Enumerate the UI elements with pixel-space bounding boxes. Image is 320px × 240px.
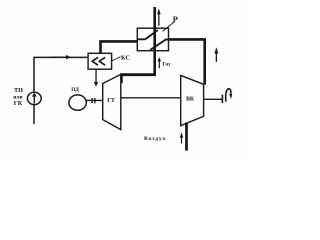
pump TN/GK circle [27, 92, 41, 104]
svg-text:КС: КС [121, 54, 130, 61]
shaft VK to load [204, 98, 223, 100]
shaft PD to GT [86, 99, 102, 101]
regenerator diagonal 1 [145, 30, 158, 39]
arrow on fuel line into KC [51, 55, 71, 60]
air flow arrow on right pipe [214, 47, 218, 62]
compressor VK trapezoid [181, 75, 204, 125]
svg-text:Воздух: Воздух [144, 136, 166, 142]
load curl arrow [226, 89, 231, 102]
arrow inside TN circle [32, 93, 37, 104]
air intake pipe below VK [185, 123, 188, 151]
coupling ticks PD-GT [91, 98, 92, 103]
air intake arrow [180, 132, 184, 143]
air pipe regenerator to KC [101, 41, 138, 53]
combustion chamber KC box [88, 53, 112, 69]
exhaust arrow at top [157, 9, 161, 26]
KC chevron 2 [99, 57, 105, 65]
svg-text:ПД: ПД [71, 87, 79, 93]
KC chevron 1 [92, 57, 98, 65]
gas duct KC arrow down to GT [94, 69, 99, 86]
wire fuel line vertical [34, 57, 88, 124]
svg-text:Газ: Газ [162, 61, 171, 67]
regenerator zigzag left stub [137, 38, 145, 40]
regenerator diagonal 2 [150, 40, 168, 50]
svg-text:ТН: ТН [14, 87, 23, 94]
exhaust pipe through regenerator up [153, 7, 156, 75]
gas arrow beside pipe [158, 57, 162, 68]
leader line to KC label [112, 57, 121, 61]
shaft GT to VK [121, 97, 181, 99]
air pipe regenerator to compressor [169, 39, 205, 84]
gas turbine GT trapezoid [103, 74, 121, 129]
svg-text:ГТ: ГТ [107, 98, 115, 104]
svg-text:Р: Р [173, 15, 178, 24]
svg-text:ГК: ГК [14, 100, 23, 107]
svg-text:ВК: ВК [186, 96, 195, 102]
starting motor PD circle [69, 95, 86, 110]
regenerator R box [137, 28, 168, 51]
leader line to R label [163, 22, 175, 32]
exhaust pipe horizontal from GT [121, 75, 156, 84]
coupling tick at load [222, 95, 224, 103]
